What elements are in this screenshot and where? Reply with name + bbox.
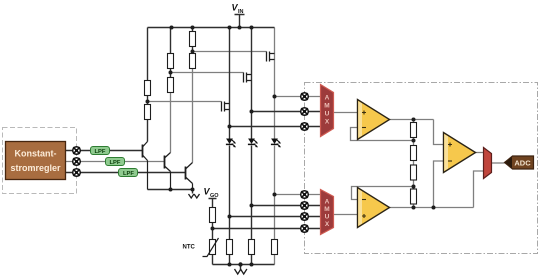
svg-text:LPF: LPF: [95, 149, 106, 155]
svg-text:Konstant-: Konstant-: [15, 149, 57, 159]
svg-text:M: M: [324, 103, 329, 110]
svg-text:X: X: [325, 119, 330, 126]
svg-text:LPF: LPF: [110, 160, 121, 166]
svg-text:stromregler: stromregler: [10, 163, 61, 173]
svg-text:M: M: [324, 206, 329, 213]
svg-text:A: A: [325, 199, 330, 206]
svg-text:U: U: [325, 111, 330, 118]
svg-text:X: X: [325, 221, 330, 228]
svg-text:LPF: LPF: [123, 171, 134, 177]
svg-text:IN: IN: [238, 9, 244, 15]
svg-text:GO: GO: [210, 193, 219, 199]
svg-text:ADC: ADC: [514, 159, 531, 168]
svg-text:A: A: [325, 95, 330, 102]
svg-text:NTC: NTC: [183, 245, 196, 251]
svg-text:U: U: [325, 214, 330, 221]
